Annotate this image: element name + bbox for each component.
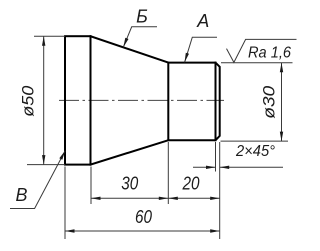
svg-text:В: В	[15, 185, 27, 205]
svg-text:20: 20	[182, 174, 200, 194]
svg-text:ø30: ø30	[260, 85, 279, 119]
svg-text:30: 30	[121, 174, 138, 194]
svg-text:60: 60	[135, 207, 152, 227]
svg-text:A: A	[196, 11, 209, 31]
svg-text:Ra 1,6: Ra 1,6	[248, 45, 291, 62]
svg-text:2×45°: 2×45°	[235, 143, 275, 160]
svg-text:ø50: ø50	[19, 85, 38, 117]
svg-text:Б: Б	[136, 7, 148, 27]
